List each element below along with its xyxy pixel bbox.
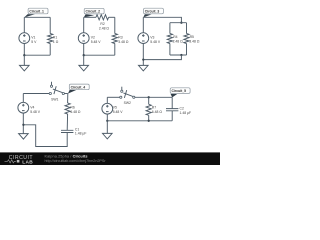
svg-text:5.48 V: 5.48 V	[113, 110, 124, 114]
wire SW1 to node	[64, 93, 67, 95]
wire C2 bottom lead	[171, 111, 173, 121]
svg-text:2.48 Ω: 2.48 Ω	[99, 26, 110, 30]
svg-text:http://circuitlab.com/c/bmj7hm: http://circuitlab.com/c/bmj7hm2n2PSr	[45, 159, 107, 163]
svg-text:R3: R3	[118, 35, 122, 39]
svg-text:Circuit_4: Circuit_4	[71, 85, 86, 89]
node junction R7 top	[148, 96, 150, 98]
wire return C3	[143, 55, 181, 60]
svg-text:Kalpna.25pha / Circuits: Kalpna.25pha / Circuits	[45, 154, 88, 158]
svg-text:Circuit_3: Circuit_3	[145, 10, 160, 14]
wire V1 top lead	[23, 17, 25, 32]
svg-text:R2: R2	[100, 22, 104, 26]
svg-text:6.48 Ω: 6.48 Ω	[70, 110, 81, 114]
svg-text:R7: R7	[152, 105, 156, 109]
wire bottom bar C3	[170, 54, 187, 56]
wire R2 to corner	[109, 16, 115, 18]
wire top rail C1	[24, 16, 50, 18]
label bubble Circuit_1	[24, 8, 48, 17]
wire ground stem C1	[23, 55, 25, 65]
svg-text:Circuit_1: Circuit_1	[29, 10, 44, 14]
wire ground stem C2	[83, 55, 85, 65]
wire rail to SW2	[107, 96, 119, 98]
wire R6 top lead	[67, 94, 69, 104]
svg-text:Circuit_2: Circuit_2	[86, 10, 101, 14]
resistor R7	[146, 104, 162, 115]
wire V1 bottom lead	[23, 44, 25, 56]
capacitor C1	[61, 128, 86, 136]
voltage source V4	[18, 102, 41, 114]
resistor R1	[48, 17, 59, 55]
label bubble Circuit_5	[170, 88, 190, 98]
wire bottom rail C2	[84, 54, 115, 56]
wire V4 bottom lead	[22, 113, 24, 134]
wire rail to R2	[84, 16, 96, 18]
svg-text:LAB: LAB	[22, 159, 33, 165]
svg-text:R6: R6	[70, 105, 74, 109]
node junction C1	[23, 54, 25, 56]
wire V5 top lead	[106, 97, 108, 103]
wire V3 bottom lead	[142, 44, 144, 66]
ground C4	[19, 134, 29, 140]
voltage source V2	[78, 33, 101, 44]
svg-text:3.48 Ω: 3.48 Ω	[189, 39, 200, 43]
wire R6 to C1	[66, 114, 68, 130]
svg-text:SW1: SW1	[51, 97, 58, 101]
voltage source V1	[19, 33, 37, 44]
svg-text:V1: V1	[31, 35, 35, 39]
wire bottom rail C5	[107, 120, 172, 122]
voltage source V3	[138, 33, 161, 44]
wire rail to SW1	[23, 93, 49, 95]
resistor R4	[167, 23, 183, 55]
resistor R5	[184, 23, 200, 55]
voltage source V5	[102, 103, 123, 114]
node junction R7 bottom	[148, 120, 150, 122]
svg-text:5.48 V: 5.48 V	[91, 40, 102, 44]
switch SW2	[120, 87, 135, 105]
label bubble Circuit_2	[84, 8, 104, 17]
ground C3	[139, 65, 149, 71]
wire V2 top lead	[83, 17, 85, 32]
svg-text:Circuit_5: Circuit_5	[172, 89, 187, 93]
node junction C3 return	[142, 58, 144, 60]
node junction C4	[22, 124, 24, 126]
capacitor C2	[166, 107, 191, 115]
svg-text:2.48 Ω: 2.48 Ω	[173, 39, 184, 43]
switch SW1	[49, 82, 64, 102]
svg-text:R1: R1	[53, 35, 57, 39]
node junction C2	[83, 54, 85, 56]
wire C2 top lead	[171, 97, 173, 108]
ground C5	[103, 133, 113, 139]
svg-text:5.48 V: 5.48 V	[30, 110, 41, 114]
svg-text:V3: V3	[150, 35, 154, 39]
wire C1 bottom to jog	[23, 125, 67, 147]
svg-text:SW2: SW2	[124, 101, 131, 105]
label bubble Circuit_3	[143, 8, 163, 17]
wire V4 top lead	[22, 94, 24, 103]
wire SW2 to C2 corner	[135, 96, 172, 98]
wire top rail C3	[143, 17, 181, 22]
svg-text:V4: V4	[30, 105, 34, 109]
wire top bar C3	[170, 22, 187, 24]
svg-text:5.48 V: 5.48 V	[150, 40, 161, 44]
resistor R6	[65, 103, 81, 114]
svg-text:1.48 μF: 1.48 μF	[75, 132, 87, 136]
resistor R2	[96, 15, 109, 31]
node junction C5 left	[106, 120, 108, 122]
wire V5 bottom lead	[106, 114, 108, 133]
svg-text:6.48 Ω: 6.48 Ω	[152, 110, 163, 114]
resistor R3	[112, 17, 129, 55]
svg-text:V2: V2	[91, 35, 95, 39]
svg-text:1.48 μF: 1.48 μF	[180, 111, 192, 115]
label bubble Circuit_4	[68, 84, 89, 94]
ground C2	[79, 65, 89, 71]
wire R7 bottom lead	[148, 115, 150, 121]
svg-text:V5: V5	[113, 106, 117, 110]
wire R7 top lead	[148, 97, 150, 104]
wire V2 bottom lead	[83, 44, 85, 56]
ground C1	[20, 65, 30, 71]
svg-text:1 Ω: 1 Ω	[53, 40, 59, 44]
svg-text:3.48 Ω: 3.48 Ω	[118, 40, 129, 44]
node junction C3 top	[180, 22, 182, 24]
wire V3 top lead	[142, 17, 144, 32]
svg-text:5 V: 5 V	[31, 40, 37, 44]
wire bottom rail C1	[24, 54, 50, 56]
node junction C3 bottom bar	[180, 54, 182, 56]
